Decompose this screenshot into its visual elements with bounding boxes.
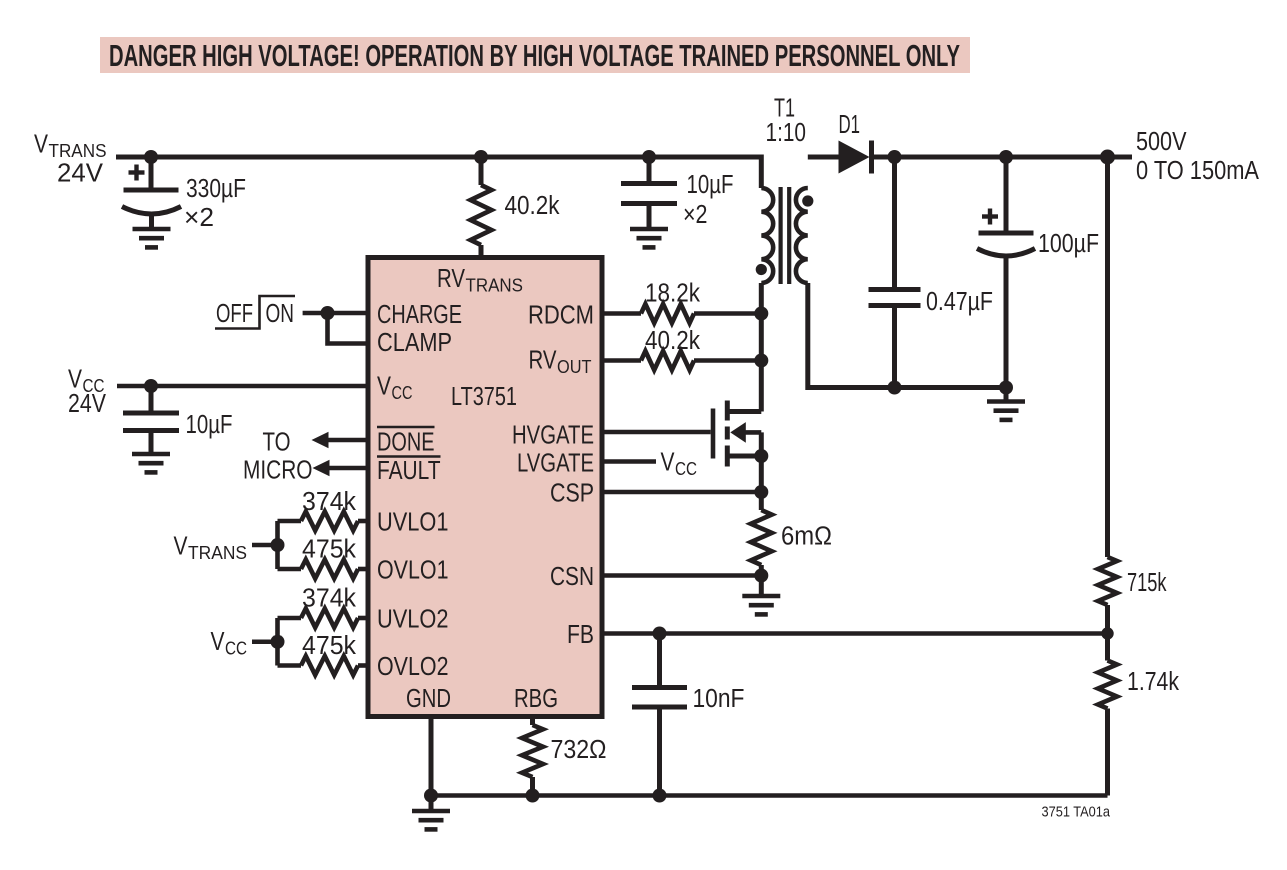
svg-text:24V: 24V xyxy=(68,390,106,418)
svg-text:330µF: 330µF xyxy=(186,175,246,203)
svg-text:TRANS: TRANS xyxy=(188,542,247,563)
svg-text:OFF: OFF xyxy=(216,300,253,328)
svg-text:10µF: 10µF xyxy=(687,171,734,199)
svg-text:V: V xyxy=(34,131,48,159)
svg-text:CC: CC xyxy=(392,382,413,403)
svg-text:0.47µF: 0.47µF xyxy=(926,288,993,316)
svg-text:LT3751: LT3751 xyxy=(451,383,517,411)
svg-text:500V: 500V xyxy=(1136,128,1187,156)
svg-text:CC: CC xyxy=(675,458,697,479)
svg-text:10nF: 10nF xyxy=(693,685,745,713)
svg-text:×2: ×2 xyxy=(184,204,214,232)
svg-text:V: V xyxy=(211,628,225,656)
svg-text:V: V xyxy=(377,373,391,401)
svg-text:374k: 374k xyxy=(302,488,356,516)
svg-text:3751 TA01a: 3751 TA01a xyxy=(1042,805,1111,821)
svg-text:RV: RV xyxy=(437,265,465,293)
svg-text:CLAMP: CLAMP xyxy=(377,329,452,357)
svg-text:HVGATE: HVGATE xyxy=(512,422,594,450)
svg-text:40.2k: 40.2k xyxy=(645,327,700,355)
svg-text:OVLO1: OVLO1 xyxy=(377,557,449,585)
svg-text:24V: 24V xyxy=(57,160,103,188)
svg-text:10µF: 10µF xyxy=(186,411,233,439)
svg-text:UVLO2: UVLO2 xyxy=(377,606,449,634)
svg-text:RBG: RBG xyxy=(514,685,558,713)
svg-text:FB: FB xyxy=(567,621,594,649)
svg-text:GND: GND xyxy=(406,685,451,713)
svg-text:374k: 374k xyxy=(302,585,356,613)
svg-text:D1: D1 xyxy=(839,111,861,139)
svg-text:CC: CC xyxy=(225,638,247,659)
svg-text:CSN: CSN xyxy=(550,563,594,591)
svg-text:×2: ×2 xyxy=(683,201,708,229)
svg-text:UVLO1: UVLO1 xyxy=(377,509,449,537)
svg-text:OVLO2: OVLO2 xyxy=(377,653,449,681)
svg-text:475k: 475k xyxy=(302,632,356,660)
svg-text:V: V xyxy=(174,533,188,561)
svg-text:CHARGE: CHARGE xyxy=(377,301,462,329)
svg-text:715k: 715k xyxy=(1127,569,1167,597)
svg-text:732Ω: 732Ω xyxy=(551,736,607,764)
svg-text:6mΩ: 6mΩ xyxy=(781,523,832,551)
svg-text:LVGATE: LVGATE xyxy=(517,450,594,478)
svg-text:TO: TO xyxy=(263,429,291,457)
svg-text:ON: ON xyxy=(266,300,295,328)
svg-text:MICRO: MICRO xyxy=(243,457,313,485)
svg-text:V: V xyxy=(661,449,675,477)
svg-text:0 TO 150mA: 0 TO 150mA xyxy=(1136,157,1259,185)
svg-text:TRANS: TRANS xyxy=(466,275,524,296)
svg-text:OUT: OUT xyxy=(557,356,592,377)
svg-text:40.2k: 40.2k xyxy=(505,192,560,220)
svg-text:18.2k: 18.2k xyxy=(645,280,700,308)
svg-text:TRANS: TRANS xyxy=(49,140,107,161)
svg-text:1.74k: 1.74k xyxy=(1127,668,1179,696)
svg-text:475k: 475k xyxy=(302,536,356,564)
svg-text:CSP: CSP xyxy=(550,480,594,508)
svg-text:FAULT: FAULT xyxy=(377,457,441,485)
svg-text:1:10: 1:10 xyxy=(766,119,807,147)
svg-text:DONE: DONE xyxy=(377,429,435,457)
svg-text:RDCM: RDCM xyxy=(528,302,594,330)
svg-text:100µF: 100µF xyxy=(1038,230,1099,258)
svg-text:DANGER HIGH VOLTAGE! OPERATION: DANGER HIGH VOLTAGE! OPERATION BY HIGH V… xyxy=(109,38,960,73)
svg-text:RV: RV xyxy=(529,347,557,375)
